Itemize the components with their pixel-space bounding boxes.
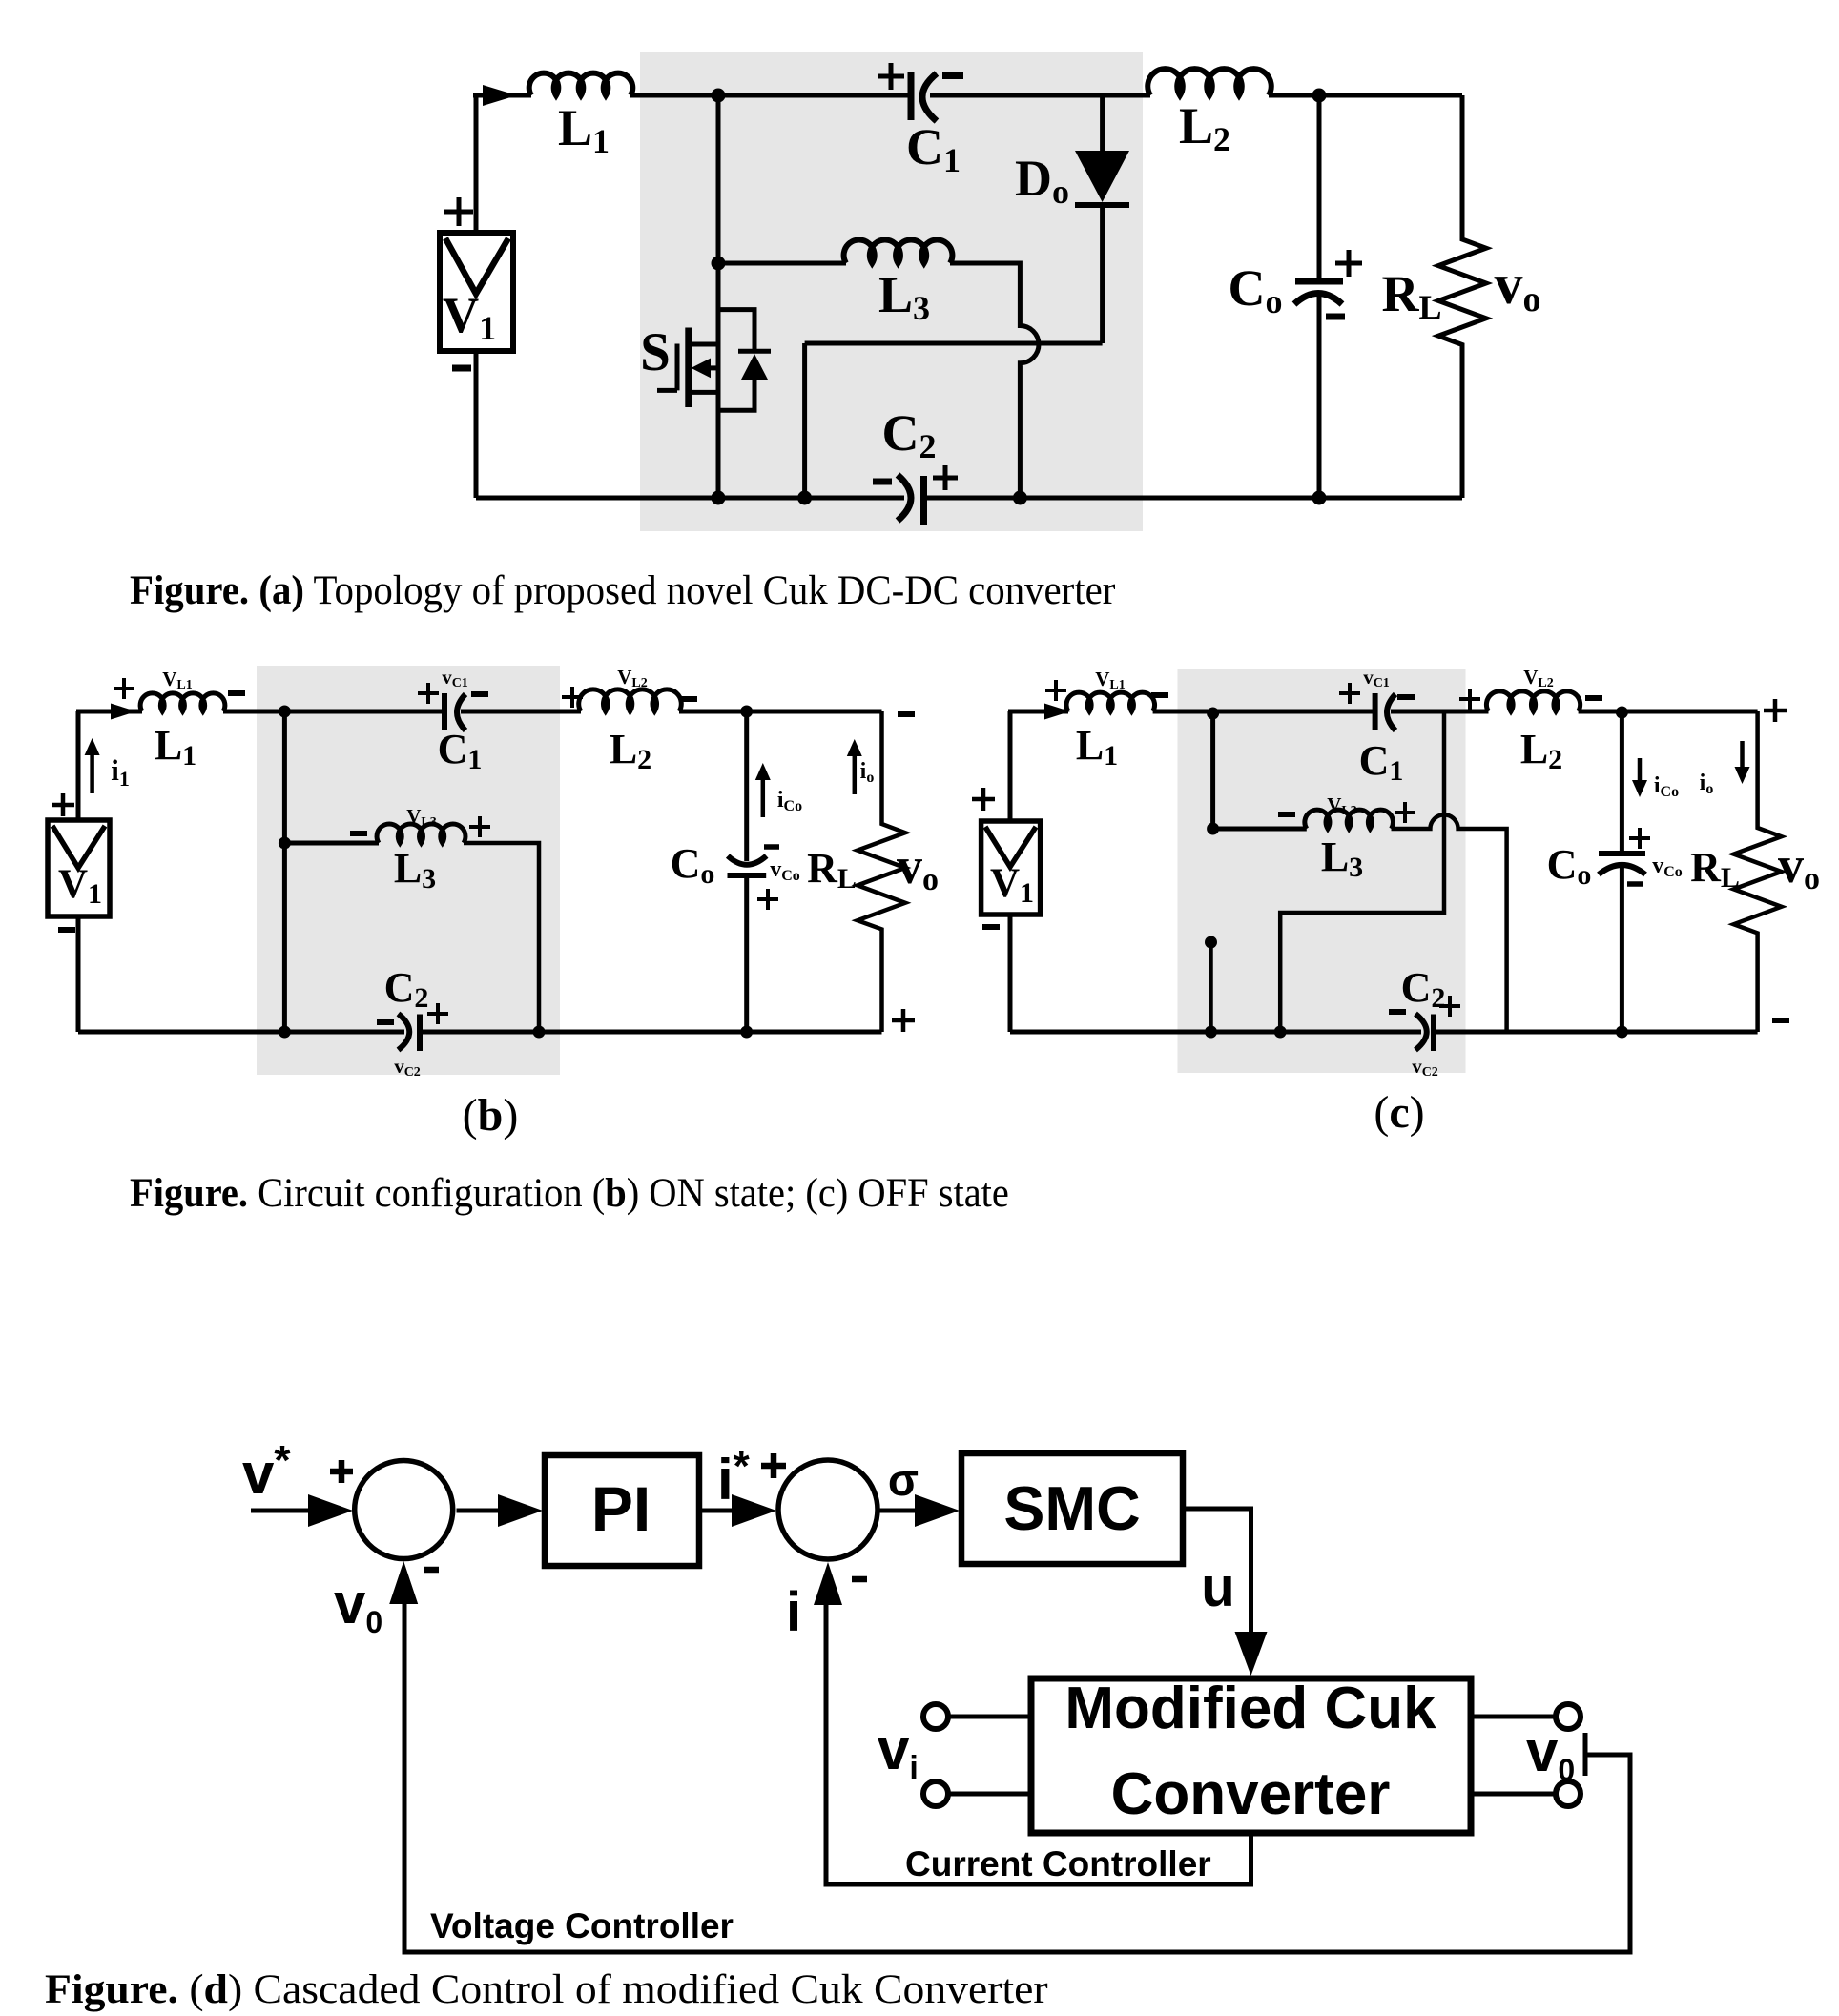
wire: top rail corner to L1 (fig b) — [76, 710, 142, 714]
arrow from current summer to SMC block, sigma signal (fig d) — [878, 1509, 918, 1513]
wire: V1 down to bottom rail (fig b) — [76, 915, 81, 1032]
plus sign after L3 (fig b) — [469, 816, 490, 837]
wire: output right branch with load (fig b) — [858, 711, 905, 1032]
SMC block (fig d) — [961, 1453, 1183, 1564]
capacitor Co top straight plate (fig a) — [1295, 278, 1343, 285]
inductor L2 coil (fig b) — [579, 689, 682, 711]
Modified Cuk Converter block (fig d) — [1031, 1678, 1471, 1833]
wire: top rail from L1 to C1 (fig a) — [630, 93, 908, 98]
node dot: Co top junction (fig c) — [1616, 707, 1628, 719]
svg-text:vC1: vC1 — [1363, 666, 1390, 690]
node dot: L2 / Co junction (fig a) — [1312, 89, 1327, 103]
svg-text:VL1: VL1 — [162, 668, 193, 692]
plus sign at C2 (fig a) — [933, 465, 958, 490]
svg-text:Converter: Converter — [1111, 1761, 1391, 1827]
svg-text:vo: vo — [897, 837, 939, 897]
svg-text:io: io — [860, 759, 875, 786]
MOSFET S source stub (fig a) — [689, 390, 718, 395]
minus sign at C2 (fig c) — [1389, 1009, 1406, 1015]
voltage summing junction circle (fig d) — [355, 1461, 453, 1559]
capacitor C2 right (straight, +) plate (fig a) — [920, 476, 927, 525]
arrow from voltage summer to PI block (fig d) — [457, 1509, 505, 1513]
capacitor C1 right curved plate (fig b) — [457, 694, 465, 730]
minus sign at C1 (fig a) — [942, 72, 963, 79]
MOSFET body diode triangle (fig a) — [741, 354, 768, 380]
svg-text:vCo: vCo — [770, 857, 800, 884]
wire from upper input terminal to converter (fig d) — [948, 1715, 1031, 1719]
capacitor Co curved bottom plate (fig c) — [1599, 865, 1645, 874]
minus sign at current summing junction (fig d) — [852, 1576, 867, 1583]
wire: L3 to corner then down with crossover hop (fig a) — [950, 263, 1039, 498]
capacitor C2 right straight plate (fig b) — [417, 1015, 423, 1052]
svg-text:i1: i1 — [111, 753, 130, 791]
plus sign before L2 (fig b) — [562, 687, 583, 708]
shaded switching-cell region (fig b) — [257, 666, 560, 1075]
svg-text:Voltage Controller: Voltage Controller — [430, 1906, 734, 1945]
node dot: L1 / switch / C1 junction (fig a) — [712, 89, 726, 103]
wire: top rail C1 to L2 (fig b) — [461, 710, 581, 714]
svg-text:vo: vo — [1778, 836, 1820, 896]
current i1 arrow (fig b) — [90, 753, 94, 793]
svg-text:L1: L1 — [558, 99, 610, 160]
diode Do anode lead from top rail (fig a) — [1100, 95, 1105, 153]
minus sign at C2 (fig b) — [377, 1019, 394, 1025]
current arrowhead on top rail (fig c) — [1044, 704, 1070, 720]
minus sign at voltage summing junction (fig d) — [424, 1567, 439, 1574]
current io arrow pointing down (fig c) — [1740, 741, 1745, 769]
capacitor Co vertical lead (fig c) — [1620, 712, 1624, 852]
svg-text:Current Controller: Current Controller — [905, 1844, 1211, 1883]
wire from lower input terminal to converter (fig d) — [948, 1792, 1031, 1797]
svg-text:SMC: SMC — [1003, 1474, 1140, 1543]
svg-text:Figure. Circuit configuration: Figure. Circuit configuration (b) ON sta… — [130, 1171, 1009, 1216]
svg-text:io: io — [1700, 771, 1714, 797]
inductor L3 coil (fig c) — [1305, 810, 1394, 829]
MOSFET S gate electrode bar (fig a) — [675, 344, 680, 391]
diode Do cathode bar (fig a) — [1075, 202, 1129, 208]
MOSFET S main vertical (drain-source) conductor (fig a) — [716, 263, 721, 498]
MOSFET body diode jog bottom (fig a) — [718, 378, 754, 410]
wire: V1 positive lead up to top rail (fig a) — [474, 95, 479, 236]
wire: top rail L2 to output corner (fig b) — [679, 710, 882, 714]
voltage source V1 (fig b) — [48, 820, 110, 916]
wire: top rail from L2 to output corner (fig a) — [1269, 93, 1462, 98]
svg-text:vo: vo — [1495, 253, 1541, 319]
wire: top rail from C1 to L2 (fig a) — [930, 93, 1150, 98]
current feedback wire from converter to current summer (fig d) — [826, 1600, 1251, 1884]
svg-text:Co: Co — [671, 840, 715, 890]
minus sign at C2 (fig a) — [873, 479, 892, 485]
svg-text:Figure. (d) Cascaded Control o: Figure. (d) Cascaded Control of modified… — [45, 1965, 1048, 2011]
wire: diode return drop to bottom rail (fig a) — [802, 343, 807, 498]
caption for figure (a) — [130, 568, 1115, 613]
plus sign at C1 (fig c) — [1339, 683, 1360, 704]
open switch stub wire (fig c) — [1209, 942, 1213, 1032]
node dot: L3 tap (fig b) — [279, 837, 291, 850]
svg-text:(c): (c) — [1374, 1087, 1424, 1138]
current iCo arrow (fig b) — [761, 778, 766, 817]
input terminal upper circle vi (fig d) — [923, 1704, 948, 1729]
wire from converter to lower output terminal (fig d) — [1471, 1792, 1556, 1797]
capacitor C1 left (straight, +) plate (fig a) — [908, 72, 915, 120]
node dot: diode return on bottom rail (fig a) — [797, 491, 812, 505]
wire: bottom rail right of C2 (fig c) — [1434, 1030, 1758, 1035]
wire: switch branch vertical (closed switch, ON state) (fig b) — [282, 711, 287, 1032]
wire: L3 tap to coil (fig b) — [284, 841, 379, 846]
capacitor Co curved top plate (fig b) — [728, 856, 767, 865]
svg-text:VL2: VL2 — [1523, 666, 1554, 690]
svg-text:v0: v0 — [334, 1572, 382, 1639]
output terminal lower circle (fig d) — [1556, 1781, 1581, 1806]
voltage source V1 (fig c) — [981, 821, 1041, 915]
svg-text:u: u — [1201, 1556, 1234, 1618]
PI controller block (fig d) — [545, 1455, 699, 1566]
wire: bottom rail right of C2 (fig b) — [420, 1030, 882, 1035]
arrow from PI to current summing junction (fig d) — [699, 1509, 739, 1513]
svg-text:iCo: iCo — [777, 788, 802, 814]
wire: top rail C1 to L2 (fig c) — [1391, 710, 1489, 714]
capacitor C1 left straight plate (fig b) — [442, 693, 447, 730]
minus sign at Co (fig a) — [1326, 314, 1345, 320]
current arrowhead on top rail (fig b) — [111, 704, 136, 720]
minus sign after L2 (fig b) — [680, 696, 697, 702]
node dot: Co top junction (fig b) — [740, 706, 753, 718]
wire: V1 up to top rail (fig b) — [76, 711, 81, 822]
inductor L3 coil (fig a) — [844, 240, 953, 263]
minus sign at V1 negative terminal (fig b) — [58, 927, 75, 933]
node dot: drop leg on bottom rail (fig c) — [1274, 1026, 1287, 1039]
wire: V1 negative lead down to bottom rail (fig a) — [474, 348, 479, 498]
plus sign at V1 positive terminal (fig a) — [444, 197, 473, 226]
node dot: stub on bottom rail (fig c) — [1205, 1026, 1217, 1039]
wire: top rail corner to L1 (fig c) — [1008, 710, 1068, 714]
diode Do triangle (fig a) — [1075, 151, 1129, 202]
svg-text:Modified Cuk: Modified Cuk — [1064, 1676, 1436, 1741]
minus sign at Co (fig c) — [1627, 881, 1643, 887]
capacitor Co vertical lead (fig a) — [1317, 95, 1322, 278]
svg-text:RL: RL — [807, 845, 857, 895]
capacitor C2 left curved plate (fig c) — [1415, 1014, 1427, 1050]
MOSFET S drain stub (fig a) — [689, 342, 718, 347]
svg-text:L2: L2 — [1520, 726, 1562, 775]
input terminal lower circle vi (fig d) — [923, 1781, 948, 1806]
plus sign at output top right (fig c) — [1764, 699, 1787, 722]
plus sign at V1 positive terminal (fig b) — [52, 793, 74, 816]
shaded switching-cell region (fig a) — [640, 52, 1143, 531]
node dot: Co bottom on bottom rail (fig b) — [740, 1026, 753, 1039]
plus sign at current summing junction (fig d) — [761, 1453, 786, 1478]
plus sign at output bottom right (fig b) — [892, 1009, 915, 1032]
voltage feedback wire from output to voltage summer (fig d) — [404, 1600, 1630, 1952]
voltage source V1 (fig a) — [440, 233, 513, 351]
svg-text:V1: V1 — [443, 288, 496, 347]
wire: bottom rail left of C2 (fig c) — [1010, 1030, 1421, 1035]
plus sign at C2 (fig c) — [1439, 996, 1460, 1017]
inductor L2 coil (fig a) — [1147, 69, 1271, 95]
capacitor C1 right (curved, -) plate (fig a) — [922, 73, 937, 121]
wire: top rail L2 to output corner (fig c) — [1579, 710, 1758, 714]
wire: bottom rail right of C2 (fig a) — [924, 496, 1463, 501]
plus sign after L3 (fig c) — [1395, 802, 1415, 823]
minus sign at C1 (fig c) — [1397, 694, 1415, 700]
svg-text:(b): (b) — [463, 1090, 519, 1141]
inductor L2 coil (fig c) — [1486, 691, 1580, 711]
wire: top rail L1 to C1 (fig c) — [1153, 710, 1374, 714]
reference input arrow v* (fig d) — [251, 1509, 315, 1513]
svg-text:S: S — [640, 322, 671, 382]
capacitor Co straight bottom plate (fig b) — [728, 873, 767, 878]
minus sign at V1 negative terminal (fig a) — [452, 365, 471, 372]
minus sign before L3 (fig c) — [1278, 812, 1295, 817]
wire: L3 right leg down to bottom rail (fig b) — [464, 843, 539, 1032]
inductor L1 coil (fig c) — [1066, 692, 1155, 711]
wire from tap to L3 coil (fig a) — [718, 261, 846, 266]
svg-text:σ: σ — [888, 1454, 919, 1505]
current iCo arrow pointing down (fig c) — [1638, 758, 1643, 782]
diode Do cathode lead down to cross wire (fig a) — [1100, 205, 1105, 343]
svg-text:vCo: vCo — [1652, 854, 1683, 880]
wire from converter to upper output terminal (fig d) — [1471, 1715, 1556, 1719]
minus sign at output bottom right (fig c) — [1772, 1018, 1789, 1023]
node dot: Co bottom on bottom rail (fig c) — [1616, 1026, 1628, 1039]
capacitor C2 left (curved, -) plate (fig a) — [898, 475, 911, 521]
svg-text:V1: V1 — [990, 861, 1034, 909]
svg-text:iCo: iCo — [1654, 773, 1679, 800]
node dot: L3 branch tap (fig a) — [712, 257, 726, 271]
minus sign after L2 (fig c) — [1585, 695, 1602, 701]
node dot: L3 tap (fig c) — [1207, 823, 1219, 835]
node dot: L3 leg on bottom rail (fig b) — [533, 1026, 546, 1039]
svg-text:L2: L2 — [1179, 97, 1230, 158]
minus sign before L3 (fig b) — [350, 831, 367, 836]
wire: bottom rail left of C2 (fig a) — [476, 496, 904, 501]
open switch stub node dot (OFF state) (fig c) — [1205, 936, 1217, 949]
node dot: Co on bottom rail (fig a) — [1312, 491, 1327, 505]
wire: V1 down to bottom rail (fig c) — [1008, 913, 1013, 1032]
caption for figures (b) and (c) — [130, 1171, 1009, 1216]
svg-text:L1: L1 — [155, 722, 196, 771]
plus sign before L2 (fig c) — [1459, 689, 1480, 710]
wire: output right branch with load (fig c) — [1734, 711, 1782, 1032]
svg-text:i: i — [786, 1581, 801, 1643]
svg-text:V1: V1 — [58, 862, 102, 910]
current summing junction circle (fig d) — [778, 1460, 878, 1559]
node dot: switch node on top rail (fig b) — [279, 706, 291, 718]
svg-text:Co: Co — [1229, 259, 1283, 320]
minus sign at C1 (fig b) — [471, 691, 488, 697]
capacitor C1 left straight plate (fig c) — [1373, 693, 1378, 730]
plus sign at C1 (fig b) — [418, 683, 439, 704]
node dot: switch bottom on bottom rail (fig b) — [279, 1026, 291, 1039]
output sense tick (fig d) — [1583, 1733, 1588, 1776]
node dot: L3 leg on bottom rail (fig a) — [1013, 491, 1027, 505]
wire: L3 branch from switch node (fig a) — [716, 95, 721, 263]
wire: bottom rail left of C2 (fig b) — [78, 1030, 404, 1035]
wire: C1/L2 node drop (fig c) — [1280, 711, 1444, 1032]
wire: V1 up to top rail (fig c) — [1008, 711, 1013, 823]
wire: diode return cross wire (fig a) — [805, 341, 1103, 346]
plus sign at V1 positive terminal (fig c) — [972, 788, 995, 811]
svg-text:VL1: VL1 — [1095, 668, 1126, 692]
minus sign at Co (fig b) — [764, 844, 779, 850]
caption for figure (d) — [45, 1965, 1048, 2011]
output terminal upper circle (fig d) — [1556, 1704, 1581, 1729]
minus sign after L1 (fig b) — [228, 690, 245, 696]
load resistor RL zigzag (fig a) — [1438, 95, 1486, 498]
node dot: switch node on top rail (fig c) — [1207, 708, 1219, 720]
wire: L3 output with crossover hop then down to bottom rail (fig c) — [1392, 814, 1507, 1032]
svg-text:vi: vi — [878, 1718, 919, 1786]
MOSFET S body stub with arrow (fig a) — [704, 365, 718, 370]
minus sign after L1 (fig c) — [1151, 692, 1168, 698]
capacitor C2 left curved plate (fig b) — [399, 1014, 410, 1050]
svg-text:L1: L1 — [1076, 722, 1118, 771]
plus sign before L1 (fig c) — [1045, 680, 1066, 701]
capacitor Co vertical lead (fig b) — [744, 711, 749, 861]
svg-text:Figure. (a) Topology of propos: Figure. (a) Topology of proposed novel C… — [130, 568, 1115, 613]
wire: top rail from source corner to L1 (fig a) — [473, 93, 531, 98]
wire: L3 tap to coil (fig c) — [1213, 827, 1307, 832]
svg-text:VL2: VL2 — [617, 666, 648, 690]
capacitor Co straight top plate (fig c) — [1599, 851, 1645, 856]
svg-text:Co: Co — [1547, 841, 1592, 891]
plus sign at Co (fig c) — [1629, 828, 1650, 849]
capacitor C1 right curved plate (fig c) — [1387, 694, 1395, 730]
svg-text:L2: L2 — [610, 726, 651, 775]
svg-text:PI: PI — [591, 1473, 651, 1544]
MOSFET body diode cathode bar (fig a) — [738, 349, 771, 354]
svg-text:v*: v* — [242, 1437, 291, 1506]
inductor L1 coil (fig a) — [529, 73, 633, 95]
inductor L1 coil (fig b) — [140, 693, 225, 711]
plus sign at Co (fig a) — [1335, 250, 1362, 277]
wire from SMC to converter with down arrow, control signal u (fig d) — [1183, 1509, 1251, 1636]
plus sign at C1 (fig a) — [878, 63, 904, 90]
wire: top rail L1 to C1 (fig b) — [223, 710, 443, 714]
svg-text:RL: RL — [1690, 844, 1740, 894]
shaded switching-cell region (fig c) — [1178, 669, 1466, 1073]
minus sign at output top right (fig b) — [898, 711, 915, 717]
input current arrowhead on top rail (fig a) — [483, 85, 517, 106]
minus sign at V1 negative terminal (fig c) — [982, 924, 1000, 930]
current io arrow (fig b) — [853, 754, 858, 794]
inductor L3 coil (fig b) — [377, 824, 465, 843]
MOSFET body diode jog top (fig a) — [718, 310, 754, 352]
wire: switch node drop to L3 tap (open switch above) (fig c) — [1210, 713, 1215, 829]
plus sign at Co (fig b) — [757, 889, 778, 910]
svg-text:RL: RL — [1381, 265, 1441, 326]
plus sign before L1 (fig b) — [114, 678, 134, 699]
plus sign at C2 (fig b) — [427, 1003, 448, 1024]
MOSFET S channel bar (fig a) — [685, 328, 692, 408]
capacitor C2 right straight plate (fig c) — [1431, 1015, 1436, 1052]
capacitor Co bottom curved plate (fig a) — [1294, 294, 1342, 305]
plus sign at voltage summing junction (fig d) — [330, 1460, 353, 1483]
MOSFET S gate lead (fig a) — [657, 388, 677, 393]
node dot: switch source on bottom rail (fig a) — [712, 491, 726, 505]
